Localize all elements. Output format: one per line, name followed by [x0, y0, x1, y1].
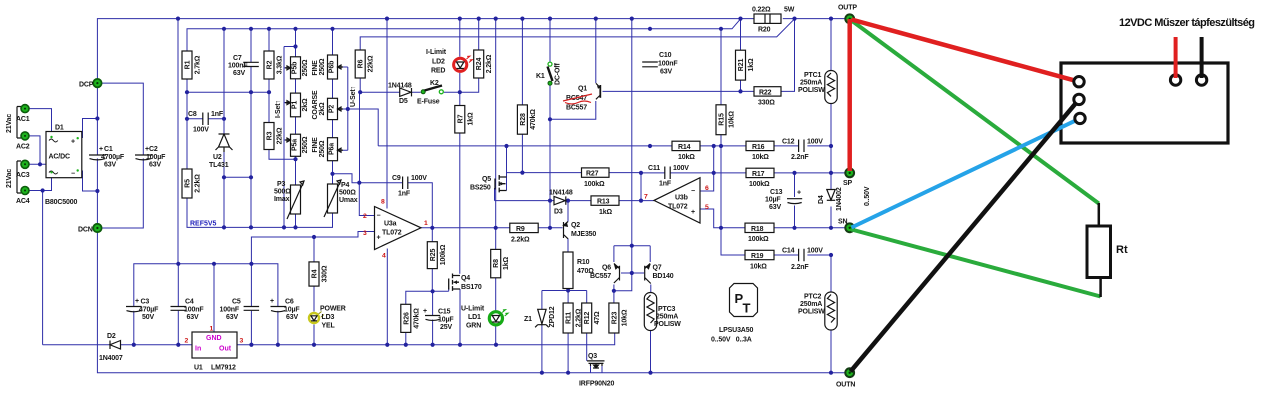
svg-text:IRFP90N20: IRFP90N20 [579, 381, 614, 388]
wire R17 line 172.9 to SP [714, 172, 846, 174]
svg-text:63V: 63V [286, 314, 298, 321]
wire rail A top [97, 19, 846, 83]
supply wire black [1200, 37, 1204, 78]
resistor R2 [264, 51, 274, 79]
svg-text:BC557: BC557 [590, 273, 611, 280]
svg-text:R20: R20 [758, 27, 771, 34]
wire P2 wiper to H146 corner [342, 109, 378, 146]
svg-text:R13: R13 [597, 199, 610, 206]
svg-text:AC4: AC4 [16, 198, 30, 205]
capacitor C1 [89, 155, 106, 160]
svg-text:C2: C2 [149, 146, 158, 153]
svg-text:REF5V5: REF5V5 [190, 221, 217, 228]
opamp U3b (mirrored) [654, 178, 700, 223]
svg-text:PTC1: PTC1 [804, 72, 822, 79]
svg-text:100V: 100V [673, 165, 689, 172]
potentiometer P2 [328, 98, 338, 119]
svg-text:10kΩ: 10kΩ [621, 309, 628, 326]
svg-text:K1: K1 [536, 73, 545, 80]
svg-text:PTC2: PTC2 [804, 294, 822, 301]
svg-text:P6b: P6b [329, 61, 336, 73]
wire R23 column [613, 291, 615, 303]
svg-text:POLISW: POLISW [798, 309, 825, 316]
wire Q1 collector column [595, 19, 597, 83]
svg-text:POLISW: POLISW [654, 321, 681, 328]
svg-text:RED: RED [431, 68, 445, 75]
transistor Q2 MJE350 [564, 222, 569, 239]
diode D3 [554, 196, 566, 204]
svg-text:C7: C7 [233, 55, 242, 62]
resistor R10 [563, 252, 573, 289]
svg-text:0.22Ω: 0.22Ω [752, 7, 771, 14]
wire 200.6 line Q5gate D3 R13 to U3b out [495, 188, 655, 201]
svg-text:C15: C15 [438, 309, 451, 316]
mosfet Q3 IRFP90N20 [587, 361, 605, 368]
svg-text:−: − [691, 188, 695, 195]
svg-text:3: 3 [240, 338, 244, 345]
svg-text:LD3: LD3 [322, 314, 335, 321]
svg-text:63V: 63V [104, 162, 116, 169]
wire R26 top corner and 291.3 line [406, 289, 449, 305]
resistor R9 [510, 223, 538, 232]
svg-text:63V: 63V [769, 204, 781, 211]
svg-text:1nF: 1nF [398, 191, 411, 198]
wire Q6 Q7 collector rail [614, 246, 650, 262]
svg-text:100V: 100V [807, 248, 823, 255]
wire R19 C14 branch and PTC2 column [721, 228, 831, 373]
svg-text:T: T [743, 301, 751, 316]
svg-text:250mA: 250mA [800, 301, 822, 308]
svg-text:63V: 63V [187, 314, 199, 321]
svg-text:250mA: 250mA [800, 80, 822, 87]
svg-text:Q2: Q2 [571, 222, 580, 229]
svg-text:100V: 100V [807, 139, 823, 146]
svg-text:R8: R8 [493, 259, 500, 268]
svg-text:+: + [135, 298, 139, 305]
svg-text:D4: D4 [818, 195, 825, 204]
wire U3a pin4 column [386, 249, 388, 345]
wire gnd rail 263.8 [134, 264, 278, 306]
svg-text:GRN: GRN [466, 323, 481, 330]
svg-text:PTC3: PTC3 [658, 306, 676, 313]
wire P5b P1 P5a P3 column [295, 29, 297, 228]
thick wire black OUTN to hole2 [851, 99, 1080, 371]
svg-text:12VDC Műszer tápfeszültség: 12VDC Műszer tápfeszültség [1119, 17, 1254, 29]
resistor R27 [582, 168, 610, 177]
PTC2 [825, 292, 837, 330]
svg-text:47Ω: 47Ω [594, 311, 601, 324]
meter supply hole - [1196, 75, 1206, 85]
svg-text:250mA: 250mA [656, 314, 678, 321]
svg-text:500Ω: 500Ω [339, 190, 356, 197]
svg-text:Q5: Q5 [482, 176, 491, 183]
svg-text:U-Limit: U-Limit [461, 306, 485, 313]
svg-text:POLISW: POLISW [798, 87, 825, 94]
potentiometer P5a [291, 134, 301, 156]
wire R6 bottom down to C9 node [359, 92, 361, 183]
wire AC3 to D1 [29, 163, 46, 165]
svg-text:250Ω: 250Ω [302, 59, 309, 76]
regulator U1 LM7912 [192, 332, 237, 358]
svg-text:U3a: U3a [384, 221, 397, 228]
capacitor C11 [665, 167, 670, 180]
meter hole 1 [1074, 77, 1084, 87]
svg-text:100kΩ: 100kΩ [584, 181, 605, 188]
transistor Q6 BC557 [614, 264, 620, 284]
capacitor C9 [403, 177, 408, 190]
thick wire green SN to Rt bottom [852, 230, 1101, 297]
svg-text:1kΩ: 1kΩ [599, 209, 612, 216]
resistor R23 [609, 303, 619, 333]
svg-text:10kΩ: 10kΩ [678, 154, 695, 161]
svg-text:3.3kΩ: 3.3kΩ [277, 55, 284, 74]
meter hole 3 [1075, 113, 1085, 123]
svg-text:I-Limit: I-Limit [426, 49, 447, 56]
transistor Q7 BD140 [645, 264, 651, 284]
svg-text:TL431: TL431 [209, 162, 229, 169]
bridge rectifier D1 [46, 132, 82, 178]
wire R11 column [567, 291, 569, 373]
svg-text:LM7912: LM7912 [211, 365, 236, 372]
thick wire red OUTP to hole1 [852, 20, 1080, 82]
wire U3b pin6 [700, 146, 714, 191]
svg-text:+: + [99, 146, 103, 153]
transistor Q1 [596, 83, 600, 99]
wire R25 column [431, 228, 433, 291]
svg-text:C13: C13 [770, 189, 783, 196]
thick wire red OUTP vertical to SP [847, 19, 852, 171]
wire R22 right up to OUTP line [781, 19, 795, 92]
switch K2 E-Fuse [421, 90, 425, 94]
wire C8 line [187, 118, 224, 120]
wire C11 line [641, 172, 714, 174]
potentiometer P6a [328, 138, 338, 161]
svg-text:Q4: Q4 [461, 275, 470, 282]
svg-text:LD2: LD2 [432, 59, 445, 66]
svg-text:C3: C3 [141, 299, 150, 306]
wire AC2 down [29, 136, 40, 164]
svg-text:R24: R24 [476, 58, 483, 71]
wire Q4 source to rail1 [459, 289, 461, 345]
svg-text:SP: SP [843, 180, 853, 187]
svg-text:100kΩ: 100kΩ [440, 244, 447, 265]
svg-text:3: 3 [363, 230, 367, 237]
svg-text:R26: R26 [403, 312, 410, 325]
svg-text:R12: R12 [584, 312, 591, 325]
svg-text:C1: C1 [104, 146, 113, 153]
wire R26 bottom [405, 332, 407, 344]
svg-text:Rt: Rt [1116, 244, 1128, 256]
wire R6 bottom 92 line with D5 K2 to R24 [360, 78, 479, 92]
svg-text:Imax: Imax [274, 196, 290, 203]
wire C7 column [250, 29, 252, 228]
svg-text:10µF: 10µF [765, 197, 781, 204]
svg-text:50V: 50V [142, 314, 154, 321]
svg-text:R9: R9 [516, 226, 525, 233]
svg-text:1nF: 1nF [659, 181, 672, 188]
PTC3 [644, 293, 656, 331]
svg-text:100nF: 100nF [228, 63, 248, 70]
wire rail1 D2 U1 aux rail [43, 333, 615, 345]
svg-text:R2: R2 [267, 60, 274, 69]
svg-text:C10: C10 [659, 52, 672, 59]
wire C5 column [250, 264, 252, 345]
resistor R14 [672, 141, 700, 150]
meter box [1061, 63, 1228, 143]
node SP [845, 169, 854, 178]
svg-text:330Ω: 330Ω [322, 265, 329, 282]
wire R28 column [521, 19, 523, 173]
svg-text:+: + [797, 190, 801, 197]
svg-text:P4: P4 [341, 182, 350, 189]
svg-text:0..50V 0..3A: 0..50V 0..3A [711, 337, 752, 344]
capacitor C3 [126, 307, 142, 312]
svg-text:R4: R4 [312, 269, 319, 278]
wire P4 junction jog to C9 [333, 174, 360, 183]
wire D1 minus to DCN column [83, 171, 98, 192]
svg-text:R27: R27 [586, 171, 599, 178]
PT logo [730, 284, 758, 317]
wire Q5 R27 line 172.6 [507, 146, 642, 191]
resistor R22 [754, 87, 781, 96]
wire U3a pin8 column [386, 19, 388, 209]
svg-text:D1: D1 [55, 125, 64, 132]
svg-text:100kΩ: 100kΩ [749, 181, 770, 188]
capacitor C7 [243, 62, 259, 66]
svg-text:R3: R3 [267, 131, 274, 140]
wire Q2 emitter and collector R10 [567, 201, 569, 291]
svg-text:R16: R16 [752, 144, 765, 151]
resistor R25 [427, 242, 437, 269]
svg-text:GND: GND [206, 335, 222, 342]
svg-text:1: 1 [210, 326, 214, 333]
wire P6b P2 P6a P4 column [332, 29, 334, 228]
resistor R6 [355, 50, 365, 78]
svg-text:2.2kΩ: 2.2kΩ [195, 174, 202, 193]
svg-text:5: 5 [705, 204, 709, 211]
svg-text:470µF: 470µF [139, 306, 159, 313]
svg-text:B80C5000: B80C5000 [45, 199, 78, 206]
svg-text:2: 2 [363, 213, 367, 220]
svg-text:1N4002: 1N4002 [836, 187, 843, 211]
capacitor C13 [787, 199, 802, 204]
node OUTP [845, 14, 854, 23]
wire 177 line U2 to C7 [224, 176, 251, 178]
wire Q7 emitter to PTC3 [650, 285, 652, 373]
svg-text:U3b: U3b [675, 195, 688, 202]
wire C15 column [432, 291, 434, 344]
svg-text:R6: R6 [358, 59, 365, 68]
svg-text:ZPD12: ZPD12 [549, 306, 556, 327]
svg-text:100kΩ: 100kΩ [748, 236, 769, 243]
svg-text:R7: R7 [457, 114, 464, 123]
svg-text:C6: C6 [285, 299, 294, 306]
transistor Q4 BS170 [449, 274, 460, 291]
resistor R18 [745, 223, 774, 232]
wire column x178 railA to gnd rail [177, 19, 179, 264]
meter supply hole + [1170, 75, 1180, 85]
wire I-Set wiper bus [284, 47, 296, 228]
svg-text:100V: 100V [193, 127, 209, 134]
LED LD1 green [489, 312, 502, 325]
LED LD3 yellow [309, 313, 319, 323]
svg-text:Out: Out [219, 346, 232, 353]
svg-text:BD140: BD140 [653, 273, 674, 280]
resistor R28 [517, 105, 527, 134]
wire U3a output line 227.8 [421, 227, 563, 229]
svg-text:Q1: Q1 [578, 86, 587, 93]
wire D4 column [830, 173, 832, 228]
meter hole 2 [1074, 94, 1084, 104]
wire AC4 to D1 [29, 172, 52, 190]
svg-text:10kΩ: 10kΩ [750, 264, 767, 271]
pad AC2 [21, 132, 29, 140]
svg-text:R18: R18 [751, 226, 764, 233]
svg-text:COARSE: COARSE [312, 90, 319, 120]
svg-text:U-Set↑: U-Set↑ [350, 86, 357, 107]
resistor R4 (330R) [309, 262, 319, 286]
svg-text:R10: R10 [577, 259, 590, 266]
svg-text:DC-Off: DC-Off [555, 63, 562, 85]
svg-text:U1: U1 [194, 365, 203, 372]
node DCP [93, 79, 101, 87]
svg-text:1: 1 [424, 220, 428, 227]
svg-text:Q3: Q3 [588, 353, 597, 360]
resistor R7 [455, 106, 465, 134]
capacitor C14 [799, 249, 804, 262]
capacitor C10 [642, 62, 658, 67]
thick wire green OUTP to Rt top [852, 21, 1099, 204]
wire DCN down and rail2 bottom [97, 228, 846, 373]
resistor R15 [716, 105, 726, 135]
svg-text:AC1: AC1 [16, 116, 30, 123]
wire R4 LD3 column [313, 237, 315, 345]
svg-text:TL072: TL072 [668, 204, 688, 211]
svg-text:−: − [377, 213, 381, 220]
svg-text:8: 8 [381, 199, 385, 206]
svg-text:330Ω: 330Ω [758, 100, 775, 107]
svg-text:D3: D3 [554, 209, 563, 216]
resistor R11 [563, 303, 573, 333]
transformer winding AC1 AC2 [17, 107, 21, 139]
resistor R5 [182, 169, 192, 198]
svg-text:2.7kΩ: 2.7kΩ [195, 55, 202, 74]
wire Q1 base line to R21 R22 [603, 90, 755, 92]
wire R1 R5 column [186, 29, 188, 228]
svg-text:6: 6 [705, 185, 709, 192]
wire x632 column railA to Q6 Q7 [631, 19, 633, 273]
potentiometer P4 [328, 184, 338, 213]
opamp U3a [375, 207, 422, 250]
resistor R20 [754, 14, 781, 23]
wire C13 column [794, 173, 796, 228]
svg-text:2.2nF: 2.2nF [791, 264, 809, 271]
node DCN [93, 224, 101, 232]
wire AC4 branch to D2 [42, 191, 44, 345]
wire U2 column [223, 29, 225, 228]
svg-text:U2: U2 [213, 154, 222, 161]
capacitor C4 [171, 307, 187, 311]
potentiometer P3 [291, 185, 301, 214]
wire U3b pin5 [700, 209, 745, 228]
resistor R17 [746, 168, 774, 177]
wire K1 column [549, 19, 551, 227]
wire Q6 Q7 base link and drop [614, 273, 644, 291]
svg-text:R23: R23 [611, 312, 618, 325]
svg-text:22kΩ: 22kΩ [368, 55, 375, 72]
svg-text:2kΩ: 2kΩ [319, 102, 326, 115]
wire PTC1 column [830, 19, 832, 173]
svg-text:1nF: 1nF [211, 111, 224, 118]
svg-text:R25: R25 [430, 249, 437, 262]
svg-text:Q7: Q7 [653, 265, 662, 272]
svg-text:+: + [270, 298, 274, 305]
diode D2 [110, 341, 121, 350]
svg-text:10µF: 10µF [284, 306, 300, 313]
wire Z1 column [541, 291, 543, 373]
potentiometer P6b [328, 55, 338, 79]
svg-text:YEL: YEL [322, 323, 336, 330]
wire C3 bottom [133, 311, 135, 345]
svg-text:100nF: 100nF [184, 306, 204, 313]
node OUTN [845, 368, 854, 377]
svg-text:100nF: 100nF [220, 306, 240, 313]
wire C9 feedback path [359, 183, 432, 228]
resistor Rt [1087, 226, 1111, 278]
wire Q3 source stubs [591, 363, 603, 373]
svg-text:63V: 63V [226, 314, 238, 321]
svg-text:4700µF: 4700µF [101, 154, 125, 161]
wire R8 column railA LD1 [495, 19, 497, 345]
pad AC4 [21, 187, 29, 195]
svg-text:22kΩ: 22kΩ [277, 127, 284, 144]
resistor R24 [474, 50, 484, 78]
supply wire red [1174, 37, 1178, 78]
svg-text:C8: C8 [188, 111, 197, 118]
wire rail B [187, 19, 741, 51]
resistor R16 [746, 141, 774, 150]
svg-text:R5: R5 [185, 179, 192, 188]
svg-text:R21: R21 [738, 59, 745, 72]
svg-text:1kΩ: 1kΩ [748, 58, 755, 71]
svg-text:C4: C4 [185, 299, 194, 306]
capacitor C5 [244, 307, 260, 311]
svg-text:1N4148: 1N4148 [388, 83, 412, 90]
svg-text:R11: R11 [566, 312, 573, 324]
resistor R19 [745, 250, 774, 259]
potentiometer P5b [291, 57, 301, 79]
wire U1 GND pin column [213, 264, 215, 332]
svg-text:R15: R15 [719, 113, 726, 126]
svg-text:P6a: P6a [329, 143, 336, 155]
wire U3a pin2 [359, 183, 374, 216]
svg-text:100nF: 100nF [658, 61, 678, 68]
svg-text:+: + [377, 235, 381, 242]
wire gnd 237 line to U3a pin3 [251, 232, 374, 264]
PTC1 [825, 71, 837, 104]
svg-text:R28: R28 [520, 113, 527, 126]
svg-text:P1: P1 [292, 101, 299, 110]
capacitor C6 [271, 307, 287, 312]
node SN [845, 223, 854, 232]
svg-text:C11: C11 [648, 165, 660, 172]
svg-text:R17: R17 [752, 171, 765, 178]
svg-text:TL072: TL072 [382, 230, 402, 237]
wire DCP to C2 and C2 to DCN [97, 83, 143, 228]
svg-text:C5: C5 [232, 299, 241, 306]
svg-text:AC/DC: AC/DC [49, 154, 71, 161]
wire H146 main [378, 145, 831, 147]
